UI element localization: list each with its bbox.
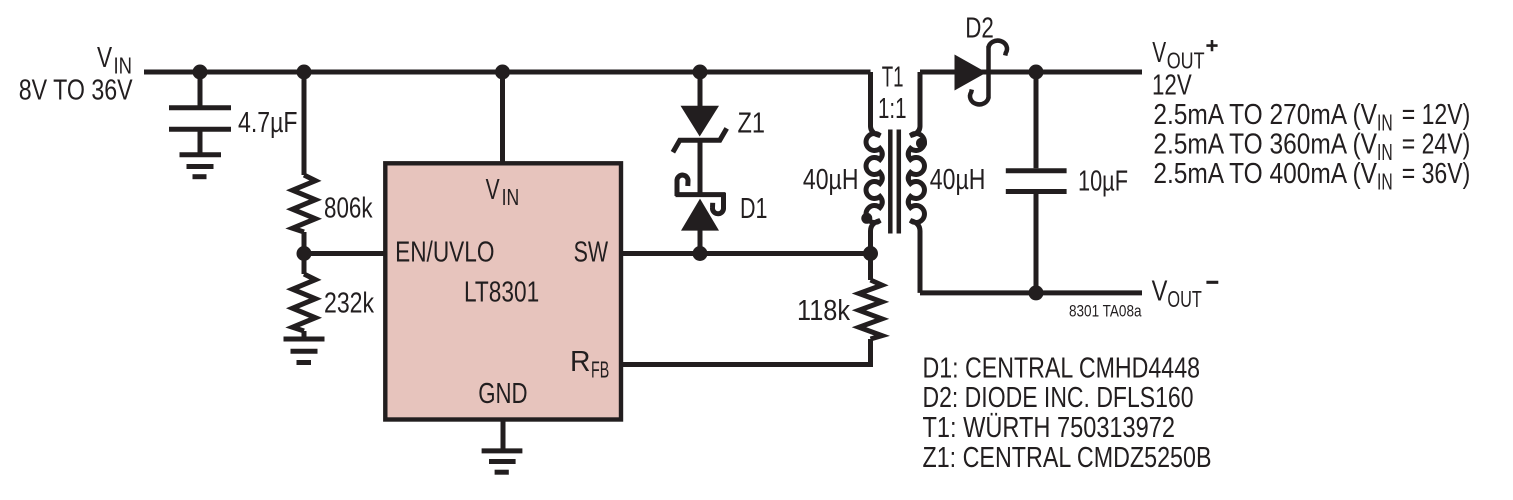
svg-text:= 24V): = 24V) [1402, 129, 1471, 161]
wire EN/UVLO [304, 251, 385, 256]
node VOUT+ label [1152, 37, 1218, 101]
inductor T1 primary winding [866, 72, 882, 254]
wire top rail [144, 70, 871, 75]
svg-text:2.5mA TO 360mA (V: 2.5mA TO 360mA (V [1153, 129, 1377, 161]
ground R2 [284, 339, 325, 363]
node VIN label [19, 42, 133, 106]
svg-text:SW: SW [574, 237, 609, 269]
node VOUT- label [1152, 275, 1219, 312]
svg-text:D1: CENTRAL CMHD4448: D1: CENTRAL CMHD4448 [923, 353, 1201, 385]
svg-text:10µF: 10µF [1078, 166, 1128, 198]
svg-text:118k: 118k [797, 295, 850, 327]
wire output top rail [920, 70, 1142, 75]
svg-text:EN/UVLO: EN/UVLO [395, 237, 494, 269]
svg-text:T1: WÜRTH 750313972: T1: WÜRTH 750313972 [923, 412, 1176, 444]
svg-text:4.7µF: 4.7µF [238, 107, 298, 139]
svg-text:LT8301: LT8301 [464, 277, 539, 309]
capacitor C2 10uF [1006, 72, 1128, 293]
svg-text:OUT: OUT [1167, 286, 1201, 312]
svg-text:V: V [1152, 37, 1166, 69]
diode D1 schottky [676, 175, 768, 253]
resistor R3 118k [797, 254, 882, 340]
svg-text:IN: IN [1377, 110, 1393, 136]
svg-text:2.5mA TO 270mA (V: 2.5mA TO 270mA (V [1153, 99, 1377, 131]
svg-text:40µH: 40µH [930, 164, 986, 196]
svg-text:V: V [486, 174, 500, 206]
transformer T1 core [890, 130, 899, 234]
svg-text:D2: D2 [965, 13, 994, 45]
svg-text:8301 TA08a: 8301 TA08a [1069, 302, 1142, 321]
node junction C2 top [1029, 65, 1044, 80]
node junction D1 [693, 246, 708, 261]
wire RFB [621, 339, 871, 365]
node junction C2 bottom [1029, 285, 1044, 300]
resistor R1 806k [293, 72, 373, 254]
svg-text:FB: FB [591, 357, 609, 383]
svg-text:40µH: 40µH [803, 164, 859, 196]
svg-text:D2: DIODE INC. DFLS160: D2: DIODE INC. DFLS160 [923, 382, 1194, 414]
wire GND pin stem [501, 420, 506, 449]
svg-text:V: V [97, 42, 113, 74]
wire Z1 to D1 [698, 140, 703, 197]
node junction R1 [297, 65, 312, 80]
transformer T1 labels [803, 62, 985, 196]
svg-text:IN: IN [1377, 139, 1393, 165]
svg-text:2.5mA TO 400mA (V: 2.5mA TO 400mA (V [1153, 158, 1377, 190]
node T1 secondary polarity dot [916, 138, 927, 149]
svg-text:IN: IN [1377, 169, 1393, 195]
svg-text:1:1: 1:1 [878, 93, 907, 125]
node T1 primary polarity dot [861, 213, 872, 224]
text notes [923, 353, 1212, 475]
ground U1 [482, 451, 523, 472]
svg-text:12V: 12V [1152, 70, 1192, 102]
svg-text:806k: 806k [324, 193, 373, 225]
node junction Z1 [693, 65, 708, 80]
text output current ratings [1153, 99, 1470, 195]
svg-text:232k: 232k [324, 288, 374, 320]
svg-text:Z1: Z1 [738, 108, 766, 140]
node junction C1 [193, 65, 208, 80]
zener Z1 [673, 72, 765, 152]
ground C1 [180, 155, 222, 177]
svg-text:= 36V): = 36V) [1402, 158, 1471, 190]
svg-text:8V TO 36V: 8V TO 36V [19, 75, 133, 107]
op-amp U1 LT8301 box [385, 163, 621, 419]
svg-text:GND: GND [478, 378, 527, 410]
svg-text:IN: IN [502, 184, 520, 210]
svg-text:T1: T1 [882, 62, 904, 94]
node junction EN [297, 246, 312, 261]
svg-text:= 12V): = 12V) [1402, 99, 1471, 131]
wire VIN pin stem [500, 72, 505, 163]
node junction VIN pin [495, 65, 510, 80]
svg-text:Z1: CENTRAL CMDZ5250B: Z1: CENTRAL CMDZ5250B [923, 442, 1212, 474]
svg-text:R: R [570, 346, 591, 378]
inductor T1 secondary winding [908, 72, 924, 293]
wire SW rail [621, 251, 871, 256]
wire output bottom rail [920, 290, 1142, 295]
svg-text:D1: D1 [740, 193, 768, 225]
capacitor C1 4.7uF [169, 72, 298, 153]
diode D2 schottky [955, 13, 1007, 105]
node junction T1 primary [863, 246, 878, 261]
resistor R2 232k [293, 254, 375, 337]
svg-text:V: V [1152, 275, 1168, 307]
